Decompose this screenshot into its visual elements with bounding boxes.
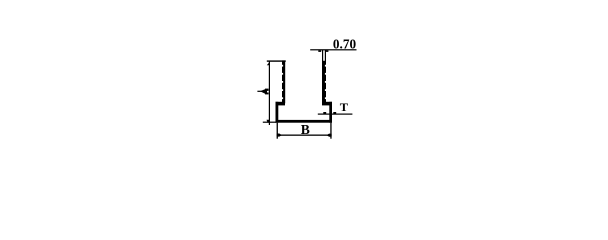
- dimension line under 0.70 label: [310, 49, 356, 50]
- label A (rotated 90 deg, drawn as shapes): [257, 89, 268, 95]
- dimension A top arrowhead: [267, 62, 270, 66]
- right arrow tick for T dimension: [333, 112, 336, 114]
- dimension B left extension line: [277, 123, 278, 139]
- serration notches on right wall outer face: [325, 65, 326, 99]
- base bar of channel profile: [276, 120, 333, 123]
- left ledge (step at bottom of left wall): [276, 102, 286, 106]
- dimension T leader line: [318, 114, 353, 115]
- dimension A bottom arrowhead: [267, 120, 270, 123]
- right lower wall (foot): [329, 102, 332, 123]
- left lower wall (foot): [276, 102, 279, 123]
- left arrow tick for T dimension: [323, 112, 326, 114]
- serration notches on left wall outer face: [282, 65, 283, 99]
- svg-text:0.70: 0.70: [333, 36, 356, 51]
- top edge line of left wall (also extension line for dimension A): [267, 60, 286, 61]
- dimension B left arrowhead: [277, 134, 282, 137]
- svg-text:T: T: [340, 102, 349, 114]
- extension line, left face of right wall (for 0.70 dimension): [322, 50, 323, 62]
- left upper wall of channel profile: [282, 60, 285, 103]
- dimension A vertical line: [269, 61, 270, 125]
- right arrow tick for 0.70 dimension: [326, 50, 329, 52]
- dimension B horizontal line: [277, 135, 332, 136]
- dimension A bottom extension line (base bottom edge extended left): [263, 122, 276, 123]
- right ledge (step at bottom of right wall): [322, 102, 332, 106]
- extension line, right face of right wall (for 0.70 dimension): [325, 50, 326, 62]
- right upper wall of channel profile: [322, 61, 326, 104]
- left arrow tick for 0.70 dimension: [318, 50, 321, 52]
- dimension B right arrowhead: [327, 134, 332, 137]
- svg-text:B: B: [301, 122, 310, 137]
- dimension B right extension line: [330, 123, 331, 139]
